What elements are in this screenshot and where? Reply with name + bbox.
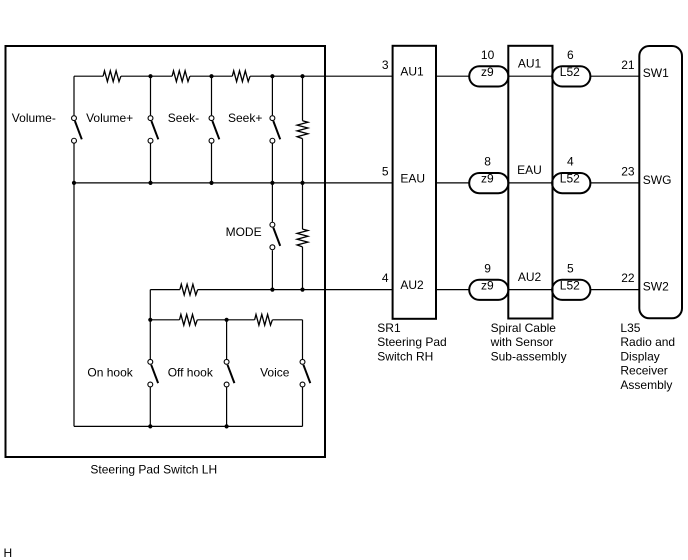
junction J3 (270, 74, 274, 78)
wire (508, 75, 552, 77)
svg-text:Spiral Cable: Spiral Cable (491, 321, 557, 335)
svg-text:Assembly: Assembly (620, 378, 672, 392)
wire (508, 289, 552, 291)
junction J6 (148, 181, 152, 185)
svg-text:On hook: On hook (87, 365, 133, 379)
switch Seek- with column wire (211, 76, 213, 183)
junction J4 (300, 74, 304, 78)
switch Volume- with column wire (73, 76, 75, 426)
wire (590, 182, 639, 184)
component SR1 Steering Pad Switch RH (393, 46, 436, 319)
svg-text:H: H (4, 546, 13, 560)
svg-text:Seek+: Seek+ (228, 111, 262, 125)
wire hook rail y=320 (150, 319, 302, 321)
junction J1 (148, 74, 152, 78)
svg-text:MODE: MODE (226, 225, 262, 239)
svg-text:3: 3 (382, 58, 389, 72)
svg-text:AU1: AU1 (518, 57, 542, 71)
svg-text:22: 22 (621, 271, 635, 285)
svg-text:z9: z9 (481, 65, 494, 79)
connector L52 pin 5 (552, 280, 590, 300)
svg-text:with Sensor: with Sensor (490, 335, 554, 349)
switch Seek+ with column wire (271, 76, 273, 183)
resistor R8 (hook rail, right) (255, 314, 273, 325)
resistor R5 (between EAU rail and AU2 feed) with column wire (302, 183, 304, 290)
switch Volume+ with column wire (150, 76, 152, 183)
svg-text:Display: Display (620, 349, 659, 363)
svg-text:Receiver: Receiver (620, 364, 667, 378)
junction J9 (300, 181, 304, 185)
junction J8 (270, 181, 274, 185)
wire bottom rail y=426 (74, 425, 303, 427)
svg-text:L52: L52 (560, 65, 580, 79)
svg-text:4: 4 (382, 271, 389, 285)
svg-text:Steering Pad Switch LH: Steering Pad Switch LH (90, 462, 217, 476)
svg-text:Steering Pad: Steering Pad (377, 335, 446, 349)
connector z9 pin 10 (469, 66, 508, 86)
svg-text:Volume-: Volume- (12, 111, 56, 125)
component Spiral Cable with Sensor Sub-assembly (508, 46, 552, 319)
wire top rail AU1 y=76 (74, 75, 393, 77)
svg-text:AU1: AU1 (400, 65, 424, 79)
wire (590, 75, 639, 77)
svg-text:EAU: EAU (400, 171, 425, 185)
junction J13 (225, 318, 229, 322)
svg-text:L52: L52 (560, 172, 580, 186)
svg-text:Sub-assembly: Sub-assembly (491, 349, 567, 363)
svg-text:9: 9 (484, 261, 491, 275)
resistor R1 (top rail, left) (103, 71, 121, 82)
wire (436, 75, 469, 77)
resistor R7 (hook rail, left) (180, 314, 198, 325)
junction J10 (270, 288, 274, 292)
svg-text:6: 6 (567, 48, 574, 62)
wire (436, 289, 469, 291)
svg-text:L52: L52 (560, 278, 580, 292)
svg-text:Voice: Voice (260, 365, 290, 379)
svg-text:8: 8 (484, 155, 491, 169)
connector z9 pin 9 (469, 280, 508, 300)
svg-text:SW2: SW2 (643, 280, 669, 294)
svg-text:SR1: SR1 (377, 321, 401, 335)
junction J12 (148, 318, 152, 322)
component L35 Radio and Display Receiver Assembly (639, 46, 682, 318)
svg-text:21: 21 (621, 58, 635, 72)
junction J7 (209, 181, 213, 185)
svg-text:10: 10 (481, 48, 495, 62)
svg-text:Radio and: Radio and (620, 335, 675, 349)
resistor R4 (between AU1 and EAU rails) with column wire (302, 76, 304, 183)
svg-text:4: 4 (567, 155, 574, 169)
svg-text:Switch RH: Switch RH (377, 349, 433, 363)
svg-text:23: 23 (621, 165, 635, 179)
svg-text:SW1: SW1 (643, 66, 669, 80)
junction J5 (72, 181, 76, 185)
wire (508, 182, 552, 184)
svg-text:EAU: EAU (517, 163, 542, 177)
svg-text:AU2: AU2 (518, 270, 542, 284)
svg-text:AU2: AU2 (400, 278, 424, 292)
svg-text:5: 5 (567, 261, 574, 275)
connector z9 pin 8 (469, 173, 508, 193)
switch Voice with column wire (302, 320, 304, 427)
switch Off hook with column wire (226, 320, 228, 427)
junction J2 (209, 74, 213, 78)
connector L52 pin 4 (552, 173, 590, 193)
junction J14 (148, 424, 152, 428)
svg-text:SWG: SWG (643, 173, 672, 187)
resistor R2 (top rail, middle) (172, 71, 190, 82)
wire (436, 182, 469, 184)
switch On hook with column wire (149, 290, 151, 427)
component box: Steering Pad Switch LH (6, 46, 326, 457)
wire EAU rail y=183 (74, 182, 393, 184)
wire AU2 feed y=290 (150, 289, 392, 291)
junction J15 (225, 424, 229, 428)
junction J11 (300, 288, 304, 292)
svg-text:z9: z9 (481, 172, 494, 186)
svg-text:L35: L35 (620, 321, 640, 335)
svg-text:Volume+: Volume+ (86, 111, 133, 125)
svg-text:z9: z9 (481, 278, 494, 292)
svg-text:Seek-: Seek- (168, 111, 199, 125)
connector L52 pin 6 (552, 66, 590, 86)
resistor R6 (AU2 feed) (180, 284, 198, 295)
svg-text:Off hook: Off hook (168, 365, 214, 379)
svg-text:5: 5 (382, 165, 389, 179)
resistor R3 (top rail, right) (232, 71, 250, 82)
switch MODE with column wire (271, 183, 273, 290)
wire (590, 289, 639, 291)
